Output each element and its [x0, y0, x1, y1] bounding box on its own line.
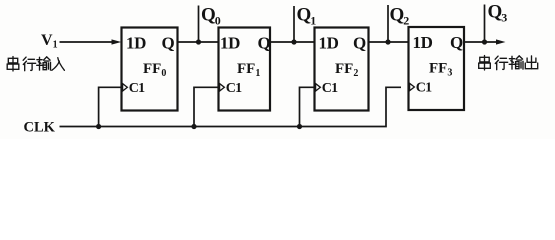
svg-text:C1: C1: [226, 81, 242, 96]
svg-text:Q: Q: [258, 34, 271, 53]
svg-text:1D: 1D: [220, 34, 240, 53]
clock wedge C1 of FF1: [220, 84, 225, 91]
svg-text:V1: V1: [41, 32, 58, 51]
arrowhead serial output: [496, 39, 506, 44]
svg-text:Q0: Q0: [201, 5, 221, 28]
label serial output (chinese) char 输: [509, 56, 523, 69]
label serial output (chinese) char 出: [525, 56, 537, 69]
junction CLK to FF2: [297, 124, 302, 129]
flip-flop FF1: [219, 28, 271, 111]
label serial output (chinese) char 串: [479, 56, 491, 71]
svg-text:1D: 1D: [413, 33, 433, 52]
svg-text:Q2: Q2: [390, 5, 410, 28]
wire FF1 Q to FF2 1D: [270, 41, 315, 43]
clock wedge C1 of FF0: [123, 84, 128, 91]
wire FF3 Q serial output: [464, 41, 498, 43]
clock wedge C1 of FF2: [316, 84, 321, 91]
svg-text:FF1: FF1: [237, 61, 260, 79]
svg-text:CLK: CLK: [24, 120, 56, 136]
flip-flop FF0: [122, 28, 178, 111]
wire CLK tap to FF1 C1: [194, 87, 219, 126]
wire Q3 tap: [484, 5, 486, 43]
svg-text:Q: Q: [450, 33, 463, 52]
svg-text:C1: C1: [322, 81, 338, 96]
wire CLK tap to FF0 C1: [99, 87, 122, 126]
clock wedge C1 of FF3: [410, 83, 415, 90]
svg-text:C1: C1: [416, 81, 432, 96]
svg-text:FF0: FF0: [143, 61, 166, 79]
flip-flop FF3: [409, 27, 465, 110]
junction node Q2: [385, 39, 390, 44]
svg-text:Q1: Q1: [297, 5, 317, 28]
label serial output (chinese) char 行: [495, 56, 508, 70]
svg-text:1D: 1D: [319, 34, 339, 53]
junction node Q1: [291, 39, 296, 44]
label serial input (chinese) char 串: [7, 57, 19, 72]
svg-text:1D: 1D: [126, 34, 146, 53]
wire FF0 Q to FF1 1D: [178, 41, 219, 43]
junction CLK to FF1: [191, 124, 196, 129]
wire FF2 Q to FF3 1D: [369, 41, 409, 43]
wire Q0 tap: [198, 6, 200, 43]
label serial input (chinese) char 行: [23, 57, 36, 71]
junction node Q0: [196, 39, 201, 44]
svg-text:Q: Q: [353, 34, 366, 53]
arrowhead into FF0 pin 1D: [112, 39, 122, 44]
svg-text:FF3: FF3: [429, 61, 452, 79]
svg-text:FF2: FF2: [335, 61, 358, 79]
wire V1 input to FF0 pin 1D: [60, 41, 114, 43]
junction node Q3: [482, 39, 487, 44]
svg-text:C1: C1: [129, 81, 145, 96]
wire Q2 tap: [387, 5, 389, 42]
label serial input (chinese) char 输: [37, 57, 51, 70]
wire CLK bus: [60, 87, 402, 126]
label serial input (chinese) char 入: [52, 58, 65, 71]
flip-flop FF2: [315, 28, 369, 111]
wire CLK tap to FF2 C1: [300, 87, 315, 126]
svg-text:Q3: Q3: [488, 2, 508, 25]
wire Q1 tap: [293, 6, 295, 42]
svg-text:Q: Q: [162, 34, 175, 53]
junction CLK to FF0: [96, 124, 101, 129]
